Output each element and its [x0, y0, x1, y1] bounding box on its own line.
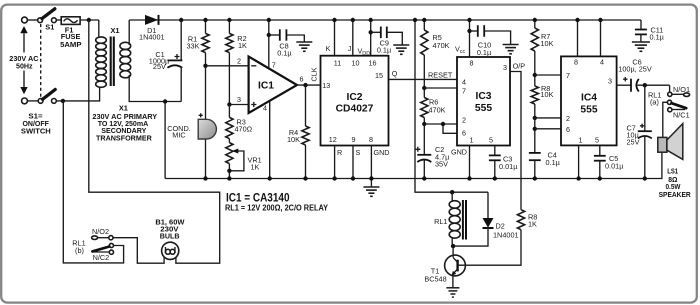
pin 8 wire: [577, 20, 579, 56]
plus C7: [640, 124, 644, 128]
pin 11 wire K: [334, 20, 336, 56]
pin 5 wire: [599, 145, 601, 155]
relay RL1(a) N/O1 contact: [668, 92, 672, 96]
IC3 555 box: [457, 57, 510, 146]
plus mic: [199, 113, 203, 117]
switch S1 bottom pole: [27, 90, 56, 104]
12V top rail: [129, 19, 641, 21]
svg-text:R: R: [337, 148, 342, 157]
resistor R3: [226, 105, 233, 143]
AC terminal top: [22, 17, 28, 23]
node relay coil top: [450, 190, 454, 194]
plus C6: [623, 77, 627, 81]
resistor R6: [421, 88, 428, 124]
svg-text:(a): (a): [650, 98, 659, 107]
wire switch to primary bottom: [56, 100, 63, 102]
svg-text:16: 16: [369, 58, 377, 67]
pin 7 wire: [268, 20, 270, 68]
plus C2: [415, 147, 420, 152]
svg-text:0.01µ: 0.01µ: [499, 162, 518, 171]
svg-text:RESET: RESET: [428, 70, 453, 79]
wire IC4 pin 7: [535, 74, 561, 76]
IC2 CD4027 box: [321, 56, 389, 146]
capacitor C4: [529, 153, 541, 179]
wire link pins 2-6: [443, 124, 457, 133]
svg-text:15: 15: [375, 71, 383, 80]
relay coil RL1: [451, 192, 453, 202]
svg-text:0.1µ: 0.1µ: [650, 33, 665, 42]
ground C11: [632, 41, 650, 43]
svg-text:2: 2: [566, 114, 570, 123]
wire Q output to IC3 reset: [389, 78, 458, 80]
svg-text:BC548: BC548: [424, 275, 446, 284]
wire mic line: [205, 66, 207, 121]
plus C1: [175, 54, 180, 59]
svg-text:7: 7: [462, 87, 466, 96]
svg-text:50Hz: 50Hz: [16, 62, 33, 71]
svg-text:CD4027: CD4027: [336, 103, 374, 114]
svg-text:IC3: IC3: [475, 91, 491, 102]
wire pole feed: [63, 101, 123, 263]
svg-text:1N4001: 1N4001: [139, 33, 165, 42]
svg-text:N/C2: N/C2: [93, 253, 110, 262]
diode D2: [453, 192, 493, 246]
svg-text:0.1µ: 0.1µ: [477, 48, 492, 57]
svg-text:BULB: BULB: [160, 232, 180, 241]
svg-text:8: 8: [369, 135, 373, 144]
wire fuse to node: [80, 19, 99, 21]
svg-text:10K: 10K: [541, 90, 554, 99]
svg-text:7: 7: [272, 61, 276, 70]
svg-text:6: 6: [300, 75, 304, 84]
svg-text:25V: 25V: [627, 137, 640, 146]
capacitor C8: [269, 29, 305, 42]
ground IC2: [363, 186, 379, 188]
transformer X1 core: [110, 37, 112, 87]
capacitor C7 electrolytic: [638, 85, 652, 178]
svg-text:GND: GND: [374, 148, 390, 157]
svg-text:SWITCH: SWITCH: [21, 127, 51, 136]
svg-text:555: 555: [475, 103, 492, 114]
capacitor C2 electrolytic: [417, 124, 431, 179]
svg-text:35V: 35V: [435, 160, 448, 169]
relay RL1(b) N/O2 contact: [92, 236, 98, 240]
svg-text:N/C1: N/C1: [673, 110, 690, 119]
capacitor C3: [489, 155, 501, 178]
svg-text:Q: Q: [392, 69, 398, 78]
svg-text:470Ω: 470Ω: [235, 125, 253, 134]
ground rail: [165, 152, 662, 178]
svg-text:1N4001: 1N4001: [493, 230, 519, 239]
pin 12 wire R: [334, 146, 336, 179]
svg-text:5AMP: 5AMP: [60, 40, 81, 49]
svg-text:470K: 470K: [429, 105, 446, 114]
svg-text:0.1µ: 0.1µ: [377, 46, 392, 55]
svg-text:6: 6: [462, 128, 466, 137]
plus input mark: [251, 102, 256, 107]
svg-text:4: 4: [263, 104, 267, 113]
node pin3/R2/R3: [227, 102, 231, 106]
op-amp IC1 CA3140: [249, 57, 297, 114]
svg-text:SPEAKER: SPEAKER: [659, 190, 692, 199]
diode D1: [145, 15, 159, 25]
pin 4 wire: [600, 20, 602, 56]
minus input mark: [251, 65, 256, 67]
capacitor C1 electrolytic: [167, 20, 182, 102]
svg-text:1: 1: [579, 136, 583, 145]
resistor R5: [421, 20, 428, 88]
ground C10: [503, 44, 519, 46]
wire IC3 pin 7: [424, 87, 457, 89]
svg-text:0.1µ: 0.1µ: [277, 49, 292, 58]
node R7/R8 pin7 IC4: [533, 73, 537, 77]
pin 8 wire GND: [370, 146, 372, 188]
IC4 555 box: [561, 56, 617, 145]
wire IC3 pin 2: [424, 123, 457, 125]
pin 1 wire GND: [469, 146, 471, 179]
svg-text:N/O2: N/O2: [92, 227, 109, 236]
svg-text:7: 7: [566, 71, 570, 80]
relay RL1(b) pole: [109, 243, 113, 247]
AC terminal bottom: [22, 98, 28, 104]
resistor R8 10K: [531, 86, 538, 153]
svg-text:CLK: CLK: [310, 67, 319, 81]
svg-text:12: 12: [329, 135, 337, 144]
svg-text:3: 3: [503, 63, 507, 72]
svg-text:GND: GND: [451, 148, 467, 157]
resistor R4: [302, 85, 309, 178]
node secondary/C1 ground junction: [163, 99, 167, 103]
svg-text:RL1: RL1: [434, 217, 447, 226]
svg-text:5: 5: [595, 136, 599, 145]
wire pin 3: [229, 104, 248, 106]
svg-text:470K: 470K: [433, 41, 450, 50]
svg-text:33K: 33K: [187, 41, 200, 50]
svg-text:5: 5: [489, 136, 493, 145]
svg-text:X1: X1: [110, 26, 119, 35]
svg-text:9: 9: [352, 135, 356, 144]
node C6/C7: [643, 83, 647, 87]
svg-text:11: 11: [334, 58, 341, 67]
ground C9: [393, 44, 409, 46]
relay RL1(b) N/C2 contact: [109, 250, 113, 254]
wire IC3 output down: [510, 72, 521, 210]
svg-text:(b): (b): [75, 246, 84, 255]
relay RL1(a) lever: [672, 103, 687, 108]
svg-text:IC2: IC2: [346, 92, 362, 103]
svg-text:6: 6: [566, 125, 570, 134]
bulb B1: [162, 242, 179, 259]
wire 12V to relay coil: [415, 20, 488, 192]
wire switch to fuse: [56, 19, 61, 21]
svg-text:1K: 1K: [251, 163, 260, 172]
ground T1: [446, 287, 459, 289]
wire IC4 pin 6: [535, 128, 561, 130]
wire NO2 to bulb: [113, 238, 164, 264]
pin 8 wire Vcc: [469, 20, 471, 57]
svg-text:3: 3: [237, 95, 241, 104]
pin 6 output wire: [297, 84, 321, 86]
svg-text:MIC: MIC: [172, 130, 185, 139]
node R5/R6 pin7: [422, 86, 426, 90]
svg-text:0.01µ: 0.01µ: [605, 161, 624, 170]
fuse F1: [61, 17, 80, 25]
capacitor C9: [371, 27, 403, 46]
svg-text:10: 10: [352, 58, 360, 67]
svg-text:D2: D2: [496, 222, 505, 231]
svg-text:13: 13: [322, 81, 330, 90]
svg-text:S1: S1: [45, 23, 54, 32]
svg-text:100µ, 25V: 100µ, 25V: [618, 65, 652, 74]
ground C8: [296, 41, 312, 43]
node fuse/primary junction: [87, 18, 91, 22]
svg-text:555: 555: [580, 104, 597, 115]
capacitor C10: [470, 25, 511, 44]
resistor R1: [202, 20, 209, 66]
resistor R7: [531, 20, 538, 86]
transistor T1 BC548: [445, 246, 466, 287]
svg-text:S: S: [356, 148, 361, 157]
wire pin 2: [206, 65, 249, 67]
svg-text:1K: 1K: [528, 220, 537, 229]
pin 1 wire: [578, 145, 580, 178]
relay RL1(b) lever: [92, 247, 109, 252]
svg-text:3: 3: [608, 76, 612, 85]
svg-text:IC4: IC4: [581, 93, 597, 104]
switch S1 top pole: [27, 9, 56, 23]
svg-text:2: 2: [462, 116, 466, 125]
node mic ground: [203, 176, 207, 180]
capacitor C11: [635, 20, 647, 42]
transformer X1 secondary winding: [128, 20, 130, 45]
wire 230V line down to bulb loop: [89, 20, 220, 263]
node collector: [451, 244, 455, 248]
pin 10 wire J: [352, 20, 354, 56]
resistor R2: [226, 20, 233, 105]
pin 16 wire VDD: [370, 20, 372, 56]
speaker LS1: [658, 137, 667, 152]
svg-text:1: 1: [470, 136, 474, 145]
node pin2 IC4: [533, 116, 537, 120]
wire to NO1 contact: [669, 85, 671, 92]
node pin6 IC4: [533, 127, 537, 131]
svg-text:2: 2: [237, 57, 241, 66]
svg-text:8: 8: [574, 58, 578, 67]
AC arrows 230V: [20, 26, 27, 94]
wire IC4 pin 2: [535, 117, 561, 119]
resistor R8 1K: [458, 210, 525, 266]
svg-text:RL1 = 12V 200Ω, 2C/O RELAY: RL1 = 12V 200Ω, 2C/O RELAY: [225, 204, 329, 213]
switch gang dashed link: [40, 24, 42, 97]
transformer X1 primary winding: [98, 20, 100, 38]
wire ground drop: [164, 102, 166, 179]
relay RL1(a) pole: [667, 100, 671, 104]
svg-text:J: J: [348, 44, 352, 53]
node switch/primary bottom: [61, 99, 65, 103]
svg-text:N/O1: N/O1: [673, 85, 690, 94]
svg-text:TRANSFORMER: TRANSFORMER: [96, 133, 152, 142]
capacitor C6 electrolytic: [631, 79, 670, 92]
svg-text:10K: 10K: [287, 135, 300, 144]
pin 9 wire S: [352, 146, 354, 179]
pin 5 wire: [494, 146, 496, 156]
svg-text:IC1: IC1: [258, 80, 274, 91]
pin 4 wire: [269, 101, 271, 179]
svg-text:1K: 1K: [238, 41, 247, 50]
svg-text:4: 4: [462, 78, 466, 87]
svg-text:10K: 10K: [541, 39, 554, 48]
preset VR1: [226, 143, 244, 179]
node R6/C2 pins 2,6: [422, 122, 426, 126]
wire pin 3 to C6: [617, 84, 631, 86]
relay RL1(a) N/C1 contact: [668, 108, 672, 112]
svg-text:4: 4: [600, 58, 604, 67]
svg-text:O/P: O/P: [513, 62, 526, 71]
relay core: [462, 200, 464, 240]
svg-text:0.1µ: 0.1µ: [546, 158, 561, 167]
node R1/pin2: [203, 64, 207, 68]
svg-text:8: 8: [470, 59, 474, 68]
svg-text:K: K: [326, 44, 331, 53]
svg-text:25V: 25V: [153, 62, 166, 71]
capacitor C5: [594, 156, 606, 179]
